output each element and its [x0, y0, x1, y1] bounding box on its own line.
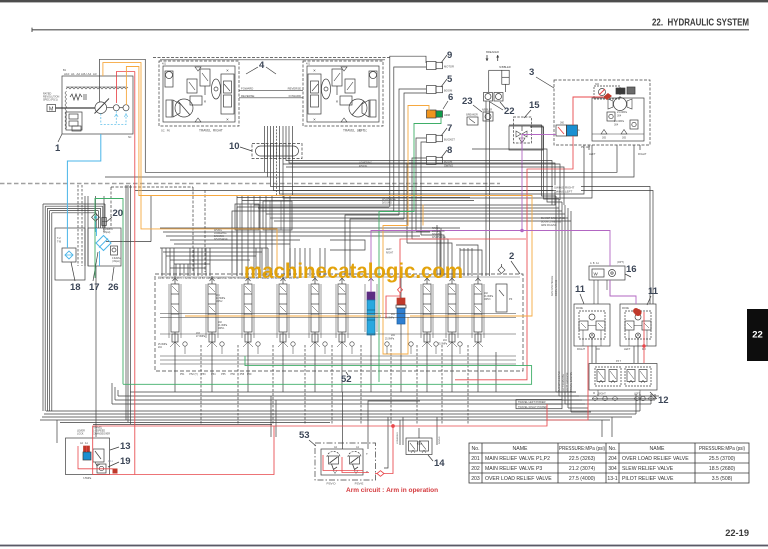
swing control valve 11 right	[574, 304, 610, 346]
wire green: filter loop	[95, 199, 123, 385]
orange loop around service spool	[383, 317, 408, 354]
red pilot feed inside 53	[323, 455, 363, 471]
svg-text:T: T	[366, 452, 368, 456]
svg-text:BREAKER: BREAKER	[486, 50, 499, 54]
svg-text:×: ×	[226, 117, 229, 122]
svg-text:304: 304	[614, 124, 619, 127]
svg-text:R/S/NG: R/S/NG	[439, 436, 441, 444]
wire: bundle risers to 12 and 14	[593, 392, 595, 394]
svg-text:R/GHT: R/GHT	[577, 347, 585, 351]
svg-text:52: 52	[341, 374, 352, 385]
svg-text:SPEC (PS/1): SPEC (PS/1)	[43, 99, 58, 102]
svg-text:D/SCHARGE: D/SCHARGE	[382, 198, 396, 201]
wire: breaker circuit drops	[485, 101, 487, 276]
svg-text:A B A1: A B A1	[590, 262, 599, 265]
svg-text:401: 401	[306, 63, 311, 66]
wire orange: pump riser loop	[126, 67, 532, 317]
make up checks 305	[601, 130, 607, 135]
wire: travel box to swivel joint drops	[264, 126, 266, 159]
port 7 bucket	[427, 135, 437, 143]
wire: upper horizontal pilot bus bundle	[237, 197, 470, 199]
svg-text:R/S/NG: R/S/NG	[214, 230, 222, 232]
svg-text:P3 T: P3 T	[616, 360, 622, 363]
svg-text:N/BBLER: N/BBLER	[499, 65, 511, 69]
svg-text:T-B: T-B	[57, 240, 61, 244]
wire: travel pilot top bus	[153, 57, 390, 59]
svg-text:REVERSE: REVERSE	[288, 87, 302, 91]
svg-text:D/GG/NG: D/GG/NG	[382, 203, 392, 205]
svg-text:TRAVEL R/GHT POWER: TRAVEL R/GHT POWER	[518, 405, 547, 409]
service spool highlighted blue	[397, 298, 405, 305]
wire orange: bank bus	[185, 315, 381, 317]
wire cyan: filter drop	[96, 228, 98, 236]
svg-text:SWING LEFT: SWING LEFT	[554, 189, 573, 193]
wire: P1 P2 P3 supply lines to risers	[509, 125, 556, 196]
svg-text:5: 5	[447, 74, 453, 85]
pressure circles row	[183, 342, 187, 346]
svg-text:MODE: MODE	[576, 308, 583, 310]
svg-text:53: 53	[299, 430, 310, 441]
svg-text:×: ×	[336, 99, 339, 104]
svg-text:22: 22	[752, 330, 763, 341]
header rule	[32, 29, 749, 31]
svg-text:22: 22	[504, 106, 515, 117]
svg-text:LEFT: LEFT	[589, 152, 596, 156]
svg-text:OVER LOAD RELIEF VALVE: OVER LOAD RELIEF VALVE	[622, 456, 689, 462]
svg-text:12: 12	[658, 395, 669, 406]
svg-text:27.0MPa: 27.0MPa	[196, 336, 206, 338]
svg-text:TRAVEL LEFT POWER: TRAVEL LEFT POWER	[518, 400, 546, 404]
spool at 212	[205, 284, 207, 338]
svg-text:R/GHT: R/GHT	[598, 393, 606, 396]
svg-text:2: 2	[509, 251, 514, 262]
svg-text:P3: P3	[509, 297, 513, 301]
svg-text:P: P	[366, 470, 368, 474]
svg-text:LEFT: LEFT	[624, 347, 631, 351]
svg-text:SC: SC	[128, 136, 132, 139]
svg-text:SLEW RELIEF VALVE: SLEW RELIEF VALVE	[622, 466, 674, 472]
svg-text:R/GHT: R/GHT	[638, 152, 647, 156]
spring symbol	[70, 94, 82, 100]
port 9 motor	[427, 62, 437, 70]
swivel tick marks	[264, 144, 266, 159]
control valve 2 outer dashed box	[155, 274, 523, 371]
svg-text:R/GHT REVERSE: R/GHT REVERSE	[566, 372, 569, 392]
wire: upper long rows	[283, 164, 560, 200]
wire: swing right / swing left long lines	[271, 159, 651, 305]
svg-text:BUCKET: BUCKET	[444, 138, 455, 142]
svg-text:R/GHT: R/GHT	[386, 253, 394, 255]
svg-text:BREAKER: BREAKER	[466, 114, 478, 117]
svg-text:202: 202	[471, 466, 480, 472]
port 5 boom	[427, 86, 437, 94]
svg-text:BUCKET D/SCHARGE: BUCKET D/SCHARGE	[541, 217, 565, 220]
svg-text:BOOM: BOOM	[444, 160, 453, 164]
svg-text:23: 23	[462, 96, 473, 107]
svg-text:No.: No.	[608, 446, 616, 452]
svg-text:machinecatalogic.com: machinecatalogic.com	[244, 260, 463, 283]
wire: right riser bundle	[555, 196, 557, 392]
svg-text:T-2: T-2	[57, 236, 61, 240]
svg-text:FOWARD: FOWARD	[289, 94, 301, 98]
travel pilot check chains	[592, 396, 598, 401]
svg-text:A10 A1 A2 A3U A4 A3: A10 A1 A2 A3U A4 A3	[64, 72, 97, 76]
svg-text:(.09psi): (.09psi)	[112, 261, 120, 263]
svg-text:FOWARD: FOWARD	[241, 87, 253, 91]
spool at 248	[241, 284, 243, 338]
arm spool highlighted cyan	[364, 284, 366, 332]
wire: bus verticals dropping to valve bank top	[161, 248, 163, 276]
relief valves in 3	[607, 112, 615, 121]
svg-text:13-1: 13-1	[607, 476, 617, 482]
svg-text:16: 16	[626, 264, 637, 275]
svg-text:×: ×	[204, 99, 207, 104]
travel power label boxes	[516, 400, 562, 405]
svg-text:MRV2: MRV2	[216, 301, 223, 303]
wire red: bottom loop around 13	[93, 426, 274, 475]
travel valve left 4	[303, 61, 383, 126]
svg-text:1: 1	[55, 143, 61, 154]
svg-text:×: ×	[313, 117, 316, 122]
svg-text:13: 13	[120, 441, 131, 452]
svg-text:BOOM LOWER/NG: BOOM LOWER/NG	[541, 222, 561, 224]
pilot relief cluster	[66, 112, 82, 130]
wire: drops to box 13	[270, 396, 272, 437]
wire: port drops into bank verticals	[237, 207, 389, 276]
svg-text:22. HYDRAULIC SYSTEM: 22. HYDRAULIC SYSTEM	[652, 18, 749, 29]
svg-text:MAIN RELIEF VALVE P3: MAIN RELIEF VALVE P3	[485, 466, 542, 472]
bottom page border bar	[0, 545, 768, 547]
wire: filter feed row	[106, 241, 151, 243]
svg-text:27.5 (4000): 27.5 (4000)	[569, 476, 596, 482]
wire red: swing down riser	[547, 346, 588, 420]
svg-text:LEFT REVERSE: LEFT REVERSE	[562, 374, 565, 392]
svg-text:PRESSURE:MPa (psi): PRESSURE:MPa (psi)	[699, 446, 745, 452]
inner frame	[592, 98, 644, 141]
tank inner box	[55, 228, 85, 280]
svg-text:304: 304	[608, 466, 617, 472]
wire: long mid rows	[135, 190, 556, 192]
svg-text:PSV-E: PSV-E	[355, 482, 364, 486]
svg-text:ARM: ARM	[444, 113, 451, 117]
bank gallery lines	[160, 313, 516, 315]
svg-text:302: 302	[595, 83, 600, 86]
check valve 20	[92, 213, 100, 221]
svg-text:MODE: MODE	[622, 308, 629, 310]
svg-text:25.0MPa: 25.0MPa	[438, 344, 448, 346]
wire red: bus to arm spool	[400, 239, 526, 287]
svg-text:19: 19	[120, 456, 131, 467]
svg-text:No.: No.	[471, 446, 479, 452]
svg-text:LOWER/NG: LOWER/NG	[214, 233, 227, 235]
pump unit 1 outline	[62, 76, 133, 134]
svg-text:9: 9	[447, 50, 452, 61]
svg-text:3.5 (508): 3.5 (508)	[712, 476, 733, 482]
lever lock solenoid blue	[84, 446, 90, 452]
pilot relief 19	[97, 464, 106, 473]
svg-text:21.0MPa: 21.0MPa	[484, 296, 494, 298]
port 6 arm highlighted	[427, 110, 437, 118]
red outlet square	[113, 469, 118, 474]
svg-text:PILOT RELIEF VALVE: PILOT RELIEF VALVE	[622, 476, 674, 482]
svg-text:7: 7	[447, 123, 452, 134]
pump case drain dashed cyan	[101, 111, 126, 125]
wire: swivel drops turn right rows	[100, 59, 618, 172]
svg-text:18.5 (2680): 18.5 (2680)	[709, 466, 736, 472]
wire green: arm port return	[379, 118, 441, 382]
right end spool P3	[496, 284, 507, 312]
spool at 342	[335, 284, 337, 338]
wire: box3 bottom port drops	[280, 145, 585, 194]
svg-text:Arm circuit : Arm in operation: Arm circuit : Arm in operation	[346, 487, 438, 494]
svg-text:8: 8	[447, 145, 452, 156]
wire: dashed verticals near tank	[77, 185, 79, 266]
wire: left bundle verticals short	[84, 196, 86, 266]
svg-text:MOTOR: MOTOR	[444, 65, 454, 69]
port 8 boom swing	[427, 157, 437, 165]
wire: swing circle boundary (gray dashed)	[0, 183, 500, 185]
gauge cluster	[594, 86, 620, 99]
svg-text:R/S/NG: R/S/NG	[432, 228, 440, 230]
svg-text:11: 11	[575, 284, 586, 295]
svg-text:305: 305	[602, 137, 607, 140]
svg-text:360: 360	[560, 122, 565, 125]
swivel joint 10	[252, 144, 302, 159]
svg-text:21.2 (3074): 21.2 (3074)	[569, 466, 596, 472]
filter 17 diamond	[96, 236, 111, 251]
wire: left feeder verticals	[125, 185, 127, 420]
svg-text:REVERSE: REVERSE	[241, 94, 255, 98]
svg-text:22.5MPa: 22.5MPa	[216, 298, 226, 300]
wire: recirculation block bundle drops	[236, 196, 238, 276]
wire: drops to box 53	[342, 392, 344, 449]
svg-text:ARM D/SCHARGE: ARM D/SCHARGE	[551, 275, 554, 296]
wire red: 53 to rail riser	[384, 426, 393, 474]
svg-text:N/BBLER: N/BBLER	[482, 109, 493, 112]
solenoid valve 360	[567, 125, 578, 136]
pump unit 1 hatched strips	[66, 87, 128, 89]
strainer 18	[62, 248, 76, 262]
svg-text:MRV1: MRV1	[218, 328, 225, 330]
svg-text:11: 11	[648, 286, 659, 297]
spool at 452	[445, 284, 447, 338]
arm pilot valve 53 dash-dot box	[315, 443, 376, 480]
svg-text:PRESSURE:MPa (psi): PRESSURE:MPa (psi)	[559, 446, 605, 452]
recirculation blocks	[235, 204, 259, 230]
svg-text:21.0MPa: 21.0MPa	[218, 325, 228, 327]
svg-text:204: 204	[608, 456, 617, 462]
svg-text:25.5 (3700): 25.5 (3700)	[709, 456, 736, 462]
svg-text:NAME: NAME	[650, 446, 666, 452]
svg-text:14: 14	[434, 458, 445, 469]
wire: drops to box 14	[399, 420, 401, 445]
red indicator diamond	[603, 93, 612, 100]
dark connector block	[616, 88, 625, 94]
svg-text:D/SCHARGE: D/SCHARGE	[214, 238, 228, 241]
svg-text:PSV-D: PSV-D	[326, 482, 336, 486]
motor M symbol	[47, 105, 56, 112]
svg-text:BOOM R/S/NG: BOOM R/S/NG	[555, 280, 558, 296]
solenoid valve block 14	[406, 438, 432, 455]
tank return nested lines	[42, 204, 44, 411]
svg-text:LOCK: LOCK	[77, 433, 84, 436]
wire red: bottom rail to right	[274, 404, 547, 426]
wire purple: arm pilot network	[371, 231, 610, 293]
svg-text:305: 305	[622, 137, 627, 140]
svg-text:LOWER/NG: LOWER/NG	[397, 432, 399, 444]
svg-text:25.0MPa: 25.0MPa	[158, 344, 168, 346]
swing motor circle	[614, 98, 627, 111]
svg-text:D/GG/NG: D/GG/NG	[214, 236, 224, 238]
svg-text:26: 26	[108, 282, 119, 293]
wire red: box3 feed down	[527, 136, 573, 239]
valves 22 pair	[484, 93, 493, 102]
spool at 315	[308, 284, 310, 338]
svg-text:MAIN RELIEF VALVE P1,P2: MAIN RELIEF VALVE P1,P2	[485, 456, 550, 462]
wire: actuator port feeder stair-steps	[390, 56, 426, 207]
svg-text:LOWER/NG: LOWER/NG	[432, 231, 445, 233]
wire orange: arm port feed	[383, 106, 429, 318]
svg-text:0.62kPa: 0.62kPa	[112, 258, 121, 260]
svg-text:17: 17	[89, 282, 100, 293]
svg-text:D/GG/NG: D/GG/NG	[432, 234, 442, 236]
wire red: pump risers	[117, 72, 135, 104]
spool at 175	[168, 284, 170, 338]
svg-text:MRV3: MRV3	[484, 299, 491, 301]
svg-text:22.5 (3263): 22.5 (3263)	[569, 456, 596, 462]
wire: bottom return bundle horizontals	[130, 391, 576, 393]
spool at 478	[471, 284, 473, 338]
svg-text:D/SCHARGE: D/SCHARGE	[432, 236, 446, 239]
pump block 3 dashed box	[554, 80, 650, 145]
svg-text:P0 SC: P0 SC	[358, 129, 367, 133]
svg-text:203: 203	[471, 476, 480, 482]
svg-text:LEFT: LEFT	[386, 249, 392, 251]
svg-text:TRAVEL RIGHT: TRAVEL RIGHT	[199, 129, 223, 133]
svg-text:M: M	[49, 106, 54, 112]
svg-text:TRAVEL DAMPEN: TRAVEL DAMPEN	[570, 372, 573, 392]
filter box 26	[88, 228, 121, 266]
svg-text:OVER LOAD RELIEF VALVE: OVER LOAD RELIEF VALVE	[485, 476, 552, 482]
svg-text:10: 10	[229, 141, 240, 152]
svg-text:ARM D/GG/NG: ARM D/GG/NG	[541, 224, 557, 227]
gear pump circles	[113, 105, 119, 111]
svg-text:(OPT): (OPT)	[617, 261, 624, 264]
bank bottom port labels	[158, 276, 520, 278]
label 1	[58, 134, 62, 142]
svg-text:304: 304	[617, 115, 622, 118]
wire: bank bottom drops to bundle	[174, 352, 176, 392]
wire: riser turns to bottom bundle	[556, 391, 576, 393]
svg-text:(16psi): (16psi)	[103, 231, 111, 234]
svg-text:4: 4	[259, 60, 265, 71]
main pump circle	[95, 102, 107, 114]
svg-text:RO: RO	[596, 347, 600, 351]
wire red: left main down	[134, 72, 136, 475]
svg-text:SC P0: SC P0	[161, 129, 170, 133]
red pilot line inside 13	[78, 446, 113, 469]
wire: stairsteps right of arm spool	[436, 225, 438, 276]
svg-text:401: 401	[162, 63, 167, 66]
speed changeover valve	[93, 449, 104, 462]
wire cyan: pump drain to strainer	[67, 134, 100, 248]
svg-text:3.5MPa: 3.5MPa	[83, 477, 92, 480]
wire green: tank return U-run	[123, 356, 532, 384]
pressure table	[469, 443, 749, 483]
svg-text:BUCKET D/GG/NG: BUCKET D/GG/NG	[558, 371, 561, 392]
svg-text:×: ×	[313, 68, 316, 73]
svg-text:25.0MPa: 25.0MPa	[385, 339, 395, 341]
svg-text:25.0MPa: 25.0MPa	[385, 318, 395, 320]
svg-text:×: ×	[226, 68, 229, 73]
svg-text:LEFT: LEFT	[634, 393, 641, 396]
red supply in 3	[573, 97, 603, 125]
swing control valve 11 left	[620, 304, 656, 346]
bypass relief	[111, 246, 118, 255]
svg-text:22-19: 22-19	[725, 528, 749, 538]
top page border bar	[0, 0, 768, 2]
spool at 283	[276, 284, 278, 338]
svg-text:P51 P52 (T) P53: P51 P52 (T) P53 P54 P55 P56 P58 P59	[180, 373, 252, 376]
travel valve right 4	[159, 61, 239, 126]
svg-text:15: 15	[529, 100, 540, 111]
pilot manifold 13	[66, 438, 110, 475]
svg-text:3: 3	[529, 67, 534, 78]
svg-text:CHANGEOVER: CHANGEOVER	[93, 433, 110, 436]
svg-text:A2 A1: A2 A1	[80, 442, 89, 445]
spool at 427	[420, 284, 422, 338]
shuttle block 16	[589, 266, 625, 280]
svg-text:R/S/NG: R/S/NG	[359, 165, 367, 168]
svg-text:18: 18	[70, 282, 81, 293]
wire: bottom bundle left steps	[111, 383, 113, 404]
svg-text:201: 201	[471, 456, 480, 462]
svg-text:NAME: NAME	[513, 446, 529, 452]
svg-text:13-1: 13-1	[108, 460, 113, 463]
svg-text:6: 6	[448, 92, 453, 103]
wire: swing valve to travel pilot links	[591, 346, 593, 363]
chapter tab 22	[747, 309, 768, 361]
travel pilot valve 12	[589, 364, 657, 391]
svg-text:20: 20	[113, 208, 124, 219]
